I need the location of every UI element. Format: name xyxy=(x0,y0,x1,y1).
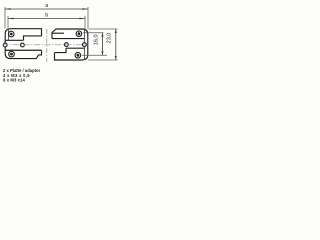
hole centerline extension top xyxy=(83,32,104,34)
right plate keyhole circle xyxy=(65,43,69,47)
right plate edge circle xyxy=(83,43,87,47)
dimension 23,0 line xyxy=(115,29,117,60)
extension line left outer xyxy=(4,7,6,29)
svg-text:8 x M3 x14: 8 x M3 x14 xyxy=(3,78,26,83)
left plate outline xyxy=(5,29,41,59)
dimension b arrow right xyxy=(80,18,86,20)
right plate slot bottom xyxy=(55,48,67,52)
right plate inner edge line xyxy=(83,29,85,60)
extension line 23 top xyxy=(89,28,118,30)
extension line bottom xyxy=(88,59,118,61)
svg-text:23,0: 23,0 xyxy=(107,33,113,44)
left plate inner edge line xyxy=(8,29,10,41)
svg-text:16,0: 16,0 xyxy=(93,34,99,45)
dimension 16,0 arrow bottom xyxy=(101,51,103,55)
left plate hole bottom outer xyxy=(9,51,15,57)
left plate channel line xyxy=(5,39,23,41)
left plate slot top xyxy=(24,36,42,40)
right plate channel line xyxy=(66,47,84,49)
left plate hole bottom center xyxy=(10,53,13,56)
dimension a line xyxy=(5,8,88,10)
dimension a arrow left xyxy=(5,8,11,10)
background xyxy=(0,0,125,91)
dimension 16,0 line xyxy=(102,33,104,56)
right plate outline xyxy=(52,29,88,60)
dimension 23,0 arrow bottom xyxy=(115,56,117,60)
left plate hole top center xyxy=(10,33,13,36)
dimension 16,0 arrow top xyxy=(101,33,103,37)
svg-text:b: b xyxy=(45,13,48,19)
right plate hole top center xyxy=(78,32,81,35)
dimension 23,0 arrow top xyxy=(115,29,117,33)
dimension b line xyxy=(8,18,85,20)
extension line right inner xyxy=(84,16,86,29)
vertical centerline xyxy=(46,29,48,62)
right plate hole bottom center xyxy=(77,54,80,57)
hole centerline extension bottom xyxy=(82,54,107,56)
right plate hole top outer xyxy=(76,31,82,37)
left plate keyhole circle xyxy=(21,43,25,47)
dimension b arrow left xyxy=(8,18,14,20)
right plate hole bottom outer xyxy=(75,52,81,58)
horizontal centerline xyxy=(3,44,87,46)
right plate slot top xyxy=(52,38,84,40)
left plate slot bottom xyxy=(5,49,41,51)
dimension a arrow right xyxy=(83,8,89,10)
left plate edge circle xyxy=(3,43,7,47)
right plate top step line xyxy=(53,32,65,34)
extension line left inner xyxy=(7,16,9,29)
left plate hole top outer xyxy=(8,31,14,37)
extension line right outer xyxy=(87,7,89,29)
